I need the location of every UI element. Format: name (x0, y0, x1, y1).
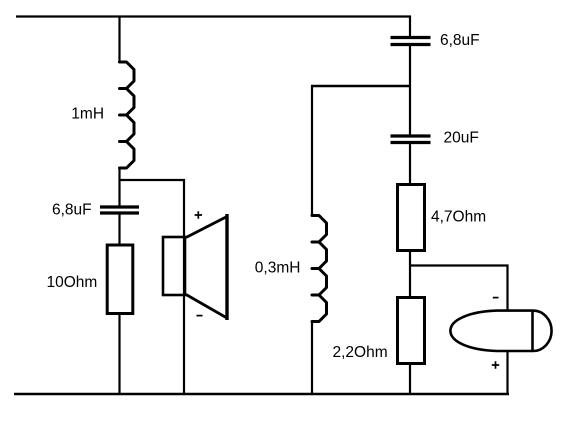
wire tweeter branch vertical (506, 265, 508, 395)
wire C1 to C3 (409, 46, 411, 136)
tweeter minus sign (493, 297, 499, 299)
svg-text:6,8uF: 6,8uF (440, 32, 480, 49)
svg-text:0,3mH: 0,3mH (255, 259, 301, 276)
svg-text:10Ohm: 10Ohm (47, 274, 98, 291)
capacitor C2 6,8uF plate 2 (100, 211, 139, 214)
wire speaker branch vertical (183, 179, 185, 394)
speaker minus sign (197, 315, 203, 317)
resistor R2 4,7Ohm (398, 185, 425, 251)
wire middle branch vertical bottom (311, 321, 313, 395)
speaker W1 cone bottom edge (186, 295, 227, 319)
tweeter plus sign (492, 361, 499, 368)
speaker W1 cone top edge (186, 217, 227, 238)
capacitor C3 20uF plate 2 (391, 141, 431, 144)
wire R2 to R3 with node B (409, 249, 411, 299)
node B horizontal wire to tweeter (409, 264, 509, 266)
wire middle branch horizontal (311, 85, 410, 87)
wire left branch top (118, 16, 120, 63)
resistor R1 10Ohm (107, 245, 133, 314)
wire R1 to bottom bus (118, 312, 120, 394)
node A horizontal wire to speaker branch (119, 179, 186, 181)
resistor R3 2,2Ohm (398, 298, 425, 364)
wire bottom bus (14, 393, 509, 395)
svg-text:6,8uF: 6,8uF (52, 201, 92, 218)
speaker plus sign (195, 211, 202, 218)
wire C3 to R2 (409, 143, 411, 186)
svg-text:20uF: 20uF (444, 130, 479, 147)
svg-text:2,2Ohm: 2,2Ohm (333, 344, 388, 361)
wire R3 to bottom bus (409, 362, 411, 394)
tweeter T1 body (450, 311, 551, 351)
wire top bus (16, 15, 411, 17)
wire right branch top (409, 16, 411, 38)
svg-text:4,7Ohm: 4,7Ohm (431, 208, 486, 225)
wire middle branch vertical top (311, 85, 313, 217)
wire C2 to R1 (118, 214, 120, 250)
capacitor C1 6,8uF plate 2 (391, 43, 431, 46)
capacitor C1 6,8uF plate 1 (391, 36, 431, 39)
capacitor C3 20uF plate 1 (391, 134, 431, 137)
capacitor C2 6,8uF plate 1 (100, 205, 139, 208)
speaker W1 box (163, 237, 185, 295)
inductor L1 1mH (120, 62, 135, 168)
inductor L2 0,3mH (312, 216, 327, 322)
speaker W1 cone mouth (225, 214, 228, 320)
tweeter T1 dome chord (531, 311, 534, 351)
svg-text:1mH: 1mH (71, 105, 104, 122)
wire coil to node A (118, 167, 120, 206)
